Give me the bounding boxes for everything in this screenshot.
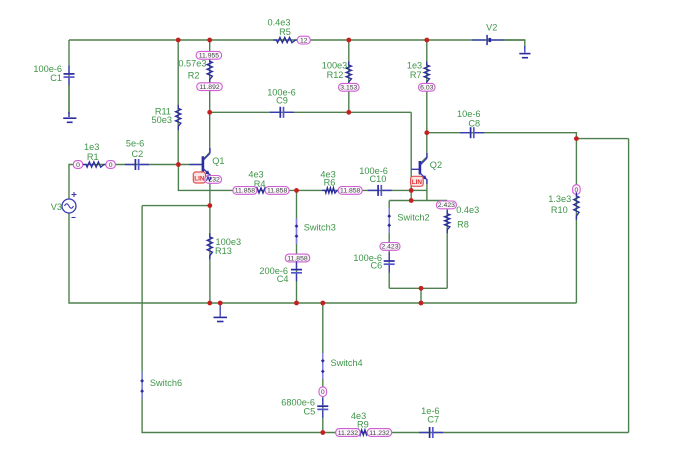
svg-text:C5: C5 xyxy=(304,406,316,416)
svg-text:C9: C9 xyxy=(276,95,288,105)
resistor R9 xyxy=(351,411,372,435)
voltage source V2 battery xyxy=(472,23,504,45)
capacitor C7 xyxy=(419,406,443,438)
resistor R11 xyxy=(152,105,181,130)
svg-text:R9: R9 xyxy=(357,420,369,430)
junction node 17 xyxy=(294,301,299,306)
wire right top xyxy=(576,138,628,140)
probe label 2.423 a xyxy=(436,201,456,209)
switch Switch3 xyxy=(295,218,336,244)
resistor R2 xyxy=(178,58,212,83)
wire R2/Q1 collector xyxy=(203,40,210,160)
resistor R4 xyxy=(248,169,273,193)
wire Q2 emitter drop xyxy=(426,180,428,201)
resistor R7 xyxy=(407,61,430,86)
junction node 15 xyxy=(207,301,212,306)
junction node 14 xyxy=(419,286,424,291)
junction node 6 xyxy=(346,110,351,115)
transistor Q1 xyxy=(190,148,225,179)
svg-text:0.57e3: 0.57e3 xyxy=(178,58,206,68)
svg-text:50e3: 50e3 xyxy=(152,115,172,125)
svg-text:LIN: LIN xyxy=(412,179,423,186)
svg-text:Switch4: Switch4 xyxy=(331,358,363,368)
svg-text:C10: C10 xyxy=(369,174,386,184)
junction node 13 xyxy=(207,203,212,208)
capacitor C1 xyxy=(33,64,74,86)
wire R10 branch xyxy=(575,139,577,303)
resistor R1 xyxy=(83,142,107,167)
resistor R13 xyxy=(207,233,241,259)
junction node 19 xyxy=(419,301,424,306)
svg-text:Switch6: Switch6 xyxy=(150,378,182,388)
wire V3 top xyxy=(69,165,74,200)
svg-text:V2: V2 xyxy=(486,23,497,33)
resistor R6 xyxy=(320,170,340,193)
switch Switch2 xyxy=(387,208,429,233)
svg-text:C6: C6 xyxy=(371,261,383,271)
wire base drop to R4 row xyxy=(178,165,234,191)
svg-text:R5: R5 xyxy=(279,27,291,37)
resistor R5 xyxy=(268,18,299,43)
svg-text:C1: C1 xyxy=(50,73,62,83)
svg-text:11.232: 11.232 xyxy=(369,430,390,437)
LIN label Q2 xyxy=(411,176,424,186)
svg-text:C8: C8 xyxy=(468,119,480,129)
svg-text:11.232: 11.232 xyxy=(338,430,359,437)
svg-text:0: 0 xyxy=(76,162,80,169)
wire right edge xyxy=(628,139,630,433)
wire top rail xyxy=(69,39,525,41)
svg-text:0: 0 xyxy=(109,162,113,169)
wire node A to emitter xyxy=(411,189,427,191)
svg-text:2.423: 2.423 xyxy=(438,202,455,209)
probe label 11.858 a xyxy=(233,187,257,195)
junction node 1 xyxy=(176,38,181,43)
junction node 7 xyxy=(424,130,429,135)
wire R4 to node xyxy=(256,189,297,191)
switch Switch4 xyxy=(321,353,363,379)
capacitor C9 xyxy=(267,88,296,118)
svg-text:11.955: 11.955 xyxy=(199,53,220,60)
svg-text:2.423: 2.423 xyxy=(381,244,398,251)
wire R1-C2 row xyxy=(82,164,178,166)
resistor R12 xyxy=(322,61,352,86)
svg-text:10e-6: 10e-6 xyxy=(457,109,481,119)
probe label 11.232 b xyxy=(367,429,392,437)
svg-text:3.153: 3.153 xyxy=(340,85,357,92)
wire Switch4/C5 branch xyxy=(322,303,324,433)
junction node 20 xyxy=(320,430,325,435)
wire bottom rail xyxy=(69,213,576,303)
wire R11 branch xyxy=(177,40,179,165)
junction node 10 xyxy=(294,188,299,193)
wire C8 row xyxy=(427,133,577,139)
junction node 4 xyxy=(424,38,429,43)
capacitor C6 xyxy=(353,253,394,273)
ground below C1 xyxy=(63,85,76,122)
svg-text:6.03: 6.03 xyxy=(420,85,433,92)
svg-text:11.858: 11.858 xyxy=(267,188,288,195)
svg-text:1e3: 1e3 xyxy=(84,142,99,152)
wire loop bottom xyxy=(389,287,447,289)
junction node 3 xyxy=(346,38,351,43)
capacitor C2 xyxy=(125,139,149,170)
junction node 9 xyxy=(176,162,181,167)
svg-text:11.858: 11.858 xyxy=(340,188,361,195)
probe label 6.03 xyxy=(419,83,436,91)
probe label 0 at C5 xyxy=(319,387,327,397)
wire R7/Q2 collector xyxy=(420,40,426,163)
wire C1 branch xyxy=(68,40,70,114)
svg-text:LIN: LIN xyxy=(194,175,205,182)
probe label 12 xyxy=(297,36,310,44)
svg-text:Switch3: Switch3 xyxy=(304,223,336,233)
junction node 2 xyxy=(207,38,212,43)
wire bottom-most rail xyxy=(323,432,629,434)
probe label 0 at R10 xyxy=(573,185,581,195)
wire Q1 emitter drop xyxy=(209,174,211,303)
svg-text:R2: R2 xyxy=(188,70,200,80)
svg-text:R7: R7 xyxy=(410,70,422,80)
svg-text:1e3: 1e3 xyxy=(407,61,422,71)
svg-text:R13: R13 xyxy=(215,246,232,256)
wire loop to rail xyxy=(420,288,422,303)
svg-text:Q2: Q2 xyxy=(430,160,442,170)
wire Switch2 left leg xyxy=(388,201,390,289)
svg-text:11.892: 11.892 xyxy=(199,84,220,91)
probe label 11.858 d xyxy=(285,254,310,262)
svg-text:Switch2: Switch2 xyxy=(397,213,429,223)
svg-text:11.858: 11.858 xyxy=(235,188,256,195)
probe label 11.232 a xyxy=(336,429,361,437)
probe label 11.892 xyxy=(197,83,223,91)
svg-text:1.3e3: 1.3e3 xyxy=(548,194,571,204)
ground main xyxy=(214,303,228,322)
wire Switch6 branch xyxy=(142,206,323,433)
capacitor C4 xyxy=(259,261,302,284)
LIN label Q1 xyxy=(193,172,205,183)
probe label 0 right of R1 xyxy=(106,161,116,169)
wire C9 row xyxy=(210,111,412,113)
voltage source V3 xyxy=(51,192,77,218)
transistor Q2 xyxy=(411,153,442,184)
junction node 8 xyxy=(574,136,579,141)
wire R8 leg xyxy=(446,201,448,289)
svg-text:100e3: 100e3 xyxy=(322,61,348,71)
probe label 11.858 b xyxy=(265,187,289,195)
wire V2 to ground xyxy=(504,40,525,49)
resistor R10 xyxy=(548,192,579,219)
svg-text:5e-6: 5e-6 xyxy=(126,139,144,149)
probe label 11.858 c xyxy=(338,187,362,195)
wire Q1 base xyxy=(178,164,202,166)
switch Switch6 xyxy=(140,372,182,399)
junction node 5 xyxy=(207,110,212,115)
svg-text:R10: R10 xyxy=(551,205,568,215)
wire R6 row xyxy=(297,189,412,191)
wire R12 branch xyxy=(348,40,350,112)
wire emitter row left xyxy=(142,205,210,207)
junction node 16 xyxy=(218,301,223,306)
svg-text:0.4e3: 0.4e3 xyxy=(456,205,479,215)
svg-text:4e3: 4e3 xyxy=(248,169,263,179)
svg-text:R12: R12 xyxy=(327,70,344,80)
wire Q2 base drop xyxy=(410,112,412,200)
capacitor C5 xyxy=(281,397,328,418)
junction node 12 xyxy=(409,198,414,203)
svg-text:V3: V3 xyxy=(51,202,62,212)
resistor R8 xyxy=(445,205,480,233)
capacitor C10 xyxy=(359,166,391,196)
wire C4 branch xyxy=(296,190,298,303)
ground below V2 xyxy=(519,46,530,58)
junction node 11 xyxy=(409,188,414,193)
svg-text:Q1: Q1 xyxy=(212,156,224,166)
capacitor C8 xyxy=(457,109,484,138)
svg-text:12: 12 xyxy=(300,37,308,44)
svg-text:R6: R6 xyxy=(324,178,336,188)
junction node 18 xyxy=(320,301,325,306)
probe label 0 left of R1 xyxy=(73,161,83,169)
svg-text:C7: C7 xyxy=(427,415,439,425)
svg-text:R8: R8 xyxy=(457,219,469,229)
wire node B row xyxy=(389,200,447,202)
svg-text:0: 0 xyxy=(321,389,325,396)
svg-text:C2: C2 xyxy=(132,149,144,159)
probe label 11.955 xyxy=(196,51,222,59)
probe label 2.423 b xyxy=(380,243,400,251)
svg-text:11.858: 11.858 xyxy=(287,255,308,262)
probe label 232 xyxy=(205,176,222,184)
probe label 3.153 xyxy=(339,83,360,91)
svg-text:R1: R1 xyxy=(87,152,99,162)
svg-text:C4: C4 xyxy=(277,274,289,284)
